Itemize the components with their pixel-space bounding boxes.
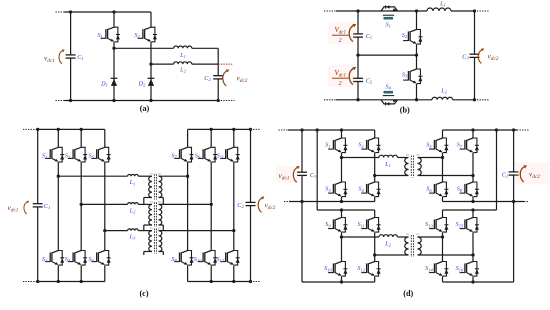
svg-text::: : — [155, 226, 156, 230]
svg-text:(d): (d) — [403, 289, 413, 298]
svg-text::: : — [412, 152, 413, 156]
svg-text:2: 2 — [338, 37, 341, 44]
svg-text::: : — [155, 199, 156, 203]
svg-text:(a): (a) — [140, 104, 150, 113]
svg-text:(b): (b) — [400, 106, 410, 115]
svg-text:2: 2 — [338, 80, 341, 87]
svg-text::: : — [155, 171, 156, 175]
svg-text:(c): (c) — [139, 289, 148, 298]
svg-text::: : — [412, 232, 413, 236]
